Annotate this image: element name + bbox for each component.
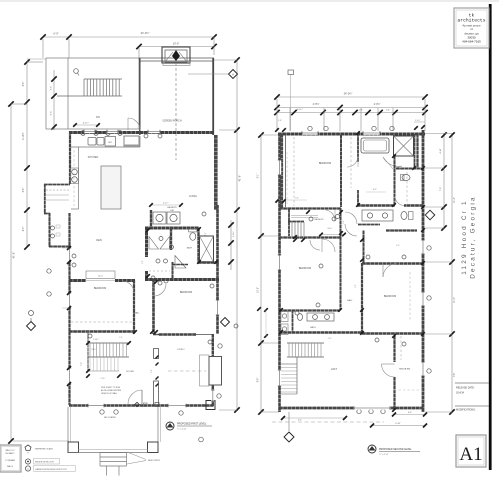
wall symbols small — [135, 402, 139, 406]
bath entry door arc — [395, 204, 404, 208]
stair upper run treads — [89, 343, 91, 357]
window tags on top wall — [81, 131, 86, 136]
screen porch centerline dashed — [175, 63, 177, 160]
pantry bottom wall — [44, 213, 50, 215]
closet dashed second floor — [350, 137, 352, 188]
svg-text:BEDROOM: BEDROOM — [384, 295, 396, 298]
second floor right wall — [422, 130, 425, 412]
svg-text:WALLS TO: WALLS TO — [6, 449, 16, 452]
left side tag circle — [29, 311, 34, 316]
closet wall above bedroom5 — [363, 231, 365, 264]
svg-text:9'-1": 9'-1" — [258, 174, 260, 179]
new steps label — [127, 452, 146, 460]
left dim extension stubs — [11, 103, 27, 105]
svg-text:TEMPERED GLASS: TEMPERED GLASS — [35, 448, 54, 451]
svg-text:5'-0": 5'-0" — [142, 260, 144, 264]
svg-text:7'-6": 7'-6" — [454, 373, 456, 378]
bath dashed partition — [406, 172, 408, 204]
window first floor left wall a — [68, 248, 71, 262]
second level title symbol — [368, 445, 376, 453]
svg-text:RELEASE DATE:: RELEASE DATE: — [456, 387, 475, 390]
mud closet left wall — [49, 213, 51, 247]
svg-text:DEN: DEN — [96, 238, 102, 242]
svg-text:4'-10": 4'-10" — [440, 148, 442, 154]
svg-text:MEDIA RM.: MEDIA RM. — [399, 368, 411, 371]
svg-text:2'-8": 2'-8" — [386, 110, 390, 112]
relocated tags — [100, 410, 104, 414]
house right wall — [216, 205, 219, 334]
bath butterfly door left — [149, 237, 159, 250]
window first floor left wall c — [68, 368, 71, 384]
fireplace hearth — [163, 62, 190, 66]
master shower — [394, 136, 414, 156]
bottom diamond marker — [288, 412, 290, 431]
window first floor top wall a — [84, 130, 95, 133]
screen porch right wall — [212, 58, 214, 135]
small dim left end wall — [275, 128, 279, 132]
svg-text:DN: DN — [96, 115, 100, 119]
house bottom wall — [69, 404, 214, 407]
window second floor right wall a — [421, 240, 424, 254]
legend wall-type box — [0, 445, 21, 472]
bath pocket door triangle — [175, 256, 186, 269]
kitchen ref box — [105, 137, 116, 147]
stair lower run treads — [89, 357, 91, 371]
laundry left wall — [150, 210, 152, 228]
bedroom1 top wall — [69, 279, 135, 282]
release date rule — [455, 382, 489, 384]
right plan right dim outer — [451, 133, 453, 412]
bedroom4 top wall — [279, 236, 341, 238]
house left wall mid — [68, 213, 70, 282]
front steps — [100, 452, 127, 454]
bath butterfly door right — [160, 237, 170, 250]
house top wall with windows — [69, 131, 214, 134]
study fireplace — [200, 355, 210, 386]
bottom wall corner post — [206, 401, 215, 410]
svg-text:BEDROOM: BEDROOM — [94, 287, 106, 290]
bedroom2 tag — [164, 279, 168, 283]
svg-text:HALL: HALL — [134, 312, 140, 315]
extra ticks second floor hall — [306, 210, 310, 214]
bath left wall — [145, 227, 148, 257]
svg-text:34'-0½": 34'-0½" — [344, 92, 353, 96]
deck inner rail line — [67, 58, 69, 129]
svg-text:2'-8": 2'-8" — [151, 369, 153, 373]
section diamond mid — [221, 318, 230, 327]
bedroom4 door arc — [322, 239, 335, 252]
svg-text:LAUNDRY: LAUNDRY — [314, 218, 324, 221]
svg-text:2'-6": 2'-6" — [295, 198, 299, 200]
pantry bump-out top wall — [44, 184, 70, 186]
svg-text:6'-0": 6'-0" — [53, 32, 58, 36]
svg-text:LAUNDRY: LAUNDRY — [167, 206, 178, 209]
screen porch left wall — [139, 58, 141, 135]
modifications rule — [455, 405, 489, 407]
svg-text:WALLS: WALLS — [7, 465, 14, 468]
wd closet wall — [292, 310, 294, 332]
extra ticks first floor stairs — [86, 341, 90, 345]
second floor bottom wall — [279, 407, 423, 410]
svg-text:7'-0": 7'-0" — [81, 362, 83, 366]
svg-text:1'-6": 1'-6" — [119, 337, 123, 339]
svg-text:8'-6": 8'-6" — [258, 378, 260, 383]
bedroom3 small dim — [286, 199, 307, 201]
survey symbol — [288, 70, 294, 75]
svg-text:3'-0": 3'-0" — [328, 338, 332, 340]
bedroom5 closet line — [409, 272, 411, 320]
bedroom2 door arc — [154, 284, 166, 296]
svg-text:4'-0": 4'-0" — [205, 232, 207, 236]
window second floor right wall b — [421, 292, 424, 306]
bath shower — [200, 236, 214, 262]
hall top wall — [279, 207, 341, 209]
window first floor bottom wall a — [88, 404, 104, 407]
study opening jambs — [154, 349, 159, 359]
front porch sides — [67, 407, 69, 442]
house left wall upper — [69, 131, 71, 184]
right plan left ext stubs — [261, 134, 279, 136]
bottom dim 6-10 — [372, 425, 425, 427]
kitchen island — [101, 166, 121, 209]
loft stairs upper treads — [288, 343, 290, 357]
kitchen counter along left wall — [78, 147, 80, 209]
pantry bump-out left wall — [44, 184, 46, 214]
front porch bottom edge — [68, 452, 148, 454]
svg-text:A1: A1 — [459, 444, 482, 465]
bedroom4 top wall ticks — [293, 238, 297, 242]
stair side wall — [87, 331, 89, 371]
svg-text:1129 Hood Cr 1: 1129 Hood Cr 1 — [461, 199, 468, 274]
deck outline — [46, 58, 139, 129]
hall door arcs — [345, 212, 357, 224]
deck tag circle — [74, 69, 79, 74]
deck stair treads hatch — [83, 79, 85, 96]
right dim extension stubs — [214, 59, 237, 61]
kitchen range — [124, 136, 139, 147]
dim line second level (10'-0) — [139, 46, 214, 48]
second floor left wall — [278, 133, 281, 412]
svg-text:MODIFICATIONS:: MODIFICATIONS: — [456, 409, 476, 412]
bath shower bottom wall — [198, 261, 219, 264]
svg-text:10'-0": 10'-0" — [258, 287, 260, 293]
window first floor top wall c — [148, 130, 160, 133]
bedroom2 bottom wall — [159, 333, 196, 336]
window second floor bottom wall — [354, 406, 390, 409]
deck inner dim — [53, 70, 55, 130]
svg-text:BEDROOM: BEDROOM — [180, 291, 192, 294]
svg-text:41'-6": 41'-6" — [12, 252, 16, 259]
svg-text:FOYER: FOYER — [126, 371, 134, 373]
svg-text:4'-2": 4'-2" — [373, 189, 377, 191]
bottom dim dashed — [272, 421, 384, 423]
svg-text:4'-6½": 4'-6½" — [313, 102, 320, 106]
svg-text:404-664-7165: 404-664-7165 — [462, 40, 481, 44]
washer dryer circles — [156, 214, 163, 221]
bath toilet — [190, 233, 196, 241]
legend tempered glass — [25, 445, 31, 451]
tag circle below — [199, 437, 204, 442]
architect box — [454, 8, 489, 48]
second floor left wall inner line — [285, 135, 287, 207]
svg-text:co: co — [27, 469, 29, 471]
svg-text:4'-0": 4'-0" — [396, 245, 400, 247]
vanity sinks — [367, 213, 372, 218]
window second floor top wall b — [363, 131, 380, 134]
svg-text:3'-6": 3'-6" — [51, 86, 53, 91]
bath lower wall — [357, 204, 423, 206]
right plan top dim overall — [277, 96, 425, 98]
left wall window tags lower — [47, 269, 51, 273]
bedroom5 top wall — [362, 262, 423, 264]
svg-text:3/14/14: 3/14/14 — [456, 392, 465, 395]
section marker diamond — [229, 70, 238, 79]
svg-text:RUN SOFFIT TO RUN: RUN SOFFIT TO RUN — [101, 387, 121, 389]
svg-text:BEDROOM: BEDROOM — [299, 267, 311, 270]
pantry shelf lines — [46, 189, 69, 191]
bedroom3 right wall — [340, 135, 342, 207]
svg-text:6'-6": 6'-6" — [408, 412, 412, 414]
bath2 top wall — [279, 309, 340, 311]
screen porch top wall — [139, 57, 214, 59]
svg-text:TP: TP — [27, 453, 29, 455]
right plan top dim inner — [277, 112, 425, 114]
svg-text:LOFT: LOFT — [331, 368, 338, 371]
fireplace inner box — [165, 50, 187, 62]
media dashed lines — [400, 336, 402, 360]
legend smoke detector — [25, 459, 30, 464]
svg-text:10'-0": 10'-0" — [173, 42, 180, 46]
bedroom5 door arc — [383, 263, 397, 277]
extra ticks first floor bath cluster — [146, 228, 150, 232]
svg-text:SCREEN PORCH: SCREEN PORCH — [162, 120, 182, 123]
svg-text:RELOCATED: RELOCATED — [104, 416, 117, 419]
vanity counter — [362, 210, 393, 221]
bedroom1 door arc — [122, 281, 134, 292]
window second floor right wall c — [421, 362, 424, 376]
den cased opening — [86, 278, 115, 284]
svg-text:TO REMAIN: TO REMAIN — [5, 459, 16, 462]
stair dim second floor — [319, 234, 346, 236]
dim extension lines top — [42, 39, 44, 58]
svg-text:10'-0": 10'-0" — [98, 276, 103, 278]
window first floor bottom wall b — [168, 404, 186, 407]
stair bottom ticks — [86, 374, 90, 378]
window first floor right wall b — [211, 390, 214, 401]
second floor top wall — [278, 133, 425, 136]
section marker line — [188, 73, 228, 75]
study opening ticks — [156, 356, 159, 359]
svg-text:2'-6": 2'-6" — [343, 220, 345, 224]
wc section diamond — [425, 210, 435, 220]
svg-text:SMOKE DETECTOR: SMOKE DETECTOR — [35, 462, 54, 464]
window first floor left wall b — [68, 293, 71, 308]
bath bottom wall / bedroom2 top wall — [145, 278, 219, 281]
shower door fan — [383, 157, 402, 166]
wc divider wall — [396, 168, 423, 170]
bottom wall window tags — [357, 409, 361, 413]
bedroom5 left wall — [361, 263, 363, 334]
porch door arc — [128, 118, 140, 130]
svg-text:2'-6": 2'-6" — [158, 224, 162, 226]
mud closet tags — [51, 226, 55, 230]
extra ticks second floor bath — [356, 131, 360, 135]
dim line top of first-floor plan (6'-0 / 34'-0.5) — [43, 36, 214, 38]
fireplace firebox — [172, 50, 180, 61]
bottom dims right plan — [394, 414, 425, 416]
laundry top dim — [150, 204, 181, 206]
svg-text:LENGTH OF WALL: LENGTH OF WALL — [101, 392, 117, 395]
hall right wall upper — [340, 208, 342, 310]
small dim above bath — [414, 121, 425, 123]
svg-text:Decatur, Georgia: Decatur, Georgia — [470, 195, 477, 279]
media rm door arc — [382, 364, 395, 377]
loft stairs lower — [281, 363, 297, 365]
linen walls — [358, 224, 380, 226]
deck stair rails — [57, 95, 122, 97]
svg-text:PROPOSED SECOND LEVEL: PROPOSED SECOND LEVEL — [379, 448, 412, 451]
study right wall tags — [218, 344, 222, 348]
svg-text:NEW STEPS: NEW STEPS — [148, 460, 160, 462]
bath top wall — [145, 227, 199, 230]
extension line left of deck — [27, 58, 46, 60]
bedroom1 right wall — [133, 280, 135, 334]
svg-text:41'-6": 41'-6" — [238, 175, 242, 182]
svg-text:BE MAINT.: BE MAINT. — [6, 452, 15, 455]
svg-text:¼" = 1'-0": ¼" = 1'-0" — [177, 428, 187, 431]
right plan left dim — [260, 135, 262, 412]
bedroom1 bottom wall — [69, 330, 134, 333]
first level title symbol — [166, 422, 174, 430]
kitchen counter along top wall — [71, 146, 140, 148]
house left wall lower — [68, 282, 70, 405]
svg-text:4'-0": 4'-0" — [23, 227, 25, 232]
wc toilet — [402, 175, 410, 181]
window first floor top wall b — [107, 130, 118, 133]
study dashed line — [168, 370, 206, 372]
wd units — [281, 312, 288, 322]
washer dryer boxes — [153, 212, 166, 224]
right plan top dim mid — [277, 107, 425, 109]
window second floor top wall a — [302, 131, 318, 134]
extra ticks first floor left openings — [67, 246, 71, 250]
mud closet bottom wall — [49, 246, 70, 248]
svg-text:HALL: HALL — [347, 299, 353, 302]
svg-text:6'-6": 6'-6" — [51, 111, 53, 116]
bath left wall — [357, 133, 359, 162]
svg-text:6'-6": 6'-6" — [23, 82, 25, 87]
bath2 bottom wall — [279, 331, 362, 333]
title block thick bar — [489, 4, 492, 470]
loft stairs upper rails — [287, 342, 324, 344]
window second floor left wall a — [278, 160, 281, 175]
tag circles second floor interior — [309, 217, 313, 221]
master tub — [361, 138, 389, 153]
top wall window dim — [73, 124, 100, 126]
bedroom1 closet dashed — [71, 321, 133, 323]
closet door arc bath — [347, 156, 358, 167]
window second floor left wall b — [278, 255, 281, 270]
bath lower wall 2 — [386, 229, 417, 231]
svg-text:KITCHEN: KITCHEN — [88, 156, 99, 159]
bath wall mid vertical — [197, 228, 199, 263]
svg-text:BATH: BATH — [310, 326, 316, 329]
bath inner closet wall — [172, 262, 174, 279]
bedroom5 bottom wall — [362, 332, 423, 334]
svg-text:BATH: BATH — [187, 247, 193, 250]
top border faint line — [0, 0, 499, 2]
left side diamond — [27, 322, 36, 331]
fireplace splay lines — [165, 52, 173, 62]
bath2 toilet — [298, 314, 303, 321]
svg-text:34'-0½": 34'-0½" — [141, 31, 150, 35]
tag circles second floor right side — [427, 246, 431, 250]
closet dashed rod — [149, 270, 170, 272]
stair upper run rails — [88, 342, 129, 344]
bath tags — [159, 237, 163, 241]
svg-text:ALONG STAIR ENTIRE: ALONG STAIR ENTIRE — [101, 389, 122, 392]
bath right wall — [414, 134, 416, 168]
right dim 41'-6 of first floor — [236, 60, 238, 410]
fireplace outer box — [162, 47, 190, 63]
svg-text:¼" = 1'-0": ¼" = 1'-0" — [379, 453, 389, 456]
stair shelf lines — [291, 215, 318, 217]
svg-text:CARBON MONOXIDE DETECTOR: CARBON MONOXIDE DETECTOR — [35, 468, 67, 471]
bedroom3 closet dashed — [293, 137, 295, 206]
bath2 vanity — [307, 313, 334, 321]
svg-text:4'-0½": 4'-0½" — [374, 102, 381, 106]
kitchen wall ovens — [72, 169, 78, 175]
bath mid wall vertical — [394, 156, 396, 205]
svg-text:PROPOSED FIRST LEVEL: PROPOSED FIRST LEVEL — [177, 423, 207, 426]
wc toilet — [401, 212, 407, 220]
window first floor right wall a — [216, 300, 219, 315]
stairwell left wall — [288, 209, 290, 236]
right plan right dim inner — [443, 133, 445, 228]
kitchen sink — [88, 138, 96, 146]
svg-text:LIVING: LIVING — [189, 195, 197, 198]
bath inner wall vertical — [170, 228, 172, 250]
right plan right ext stubs — [425, 133, 452, 135]
front porch posts bottom — [68, 442, 79, 453]
overall left dim 41'-6 — [10, 104, 12, 441]
svg-text:7'-6": 7'-6" — [440, 187, 442, 192]
living room right wall — [214, 135, 218, 210]
svg-text:1'-6": 1'-6" — [278, 120, 282, 122]
legend co detector — [25, 466, 30, 471]
svg-text:5'-0": 5'-0" — [355, 284, 357, 288]
right plan extension lines top — [276, 99, 278, 131]
svg-text:6'-6": 6'-6" — [23, 188, 25, 193]
svg-text:11'-0": 11'-0" — [454, 197, 456, 203]
right dim inner ticks — [230, 220, 232, 270]
sheet number box — [456, 435, 486, 467]
stairwell treads — [291, 222, 293, 236]
window second floor left wall c — [278, 370, 281, 386]
svg-text:6'-10": 6'-10" — [395, 423, 401, 425]
front door arc — [128, 390, 142, 404]
svg-text:rd: rd — [470, 27, 473, 31]
stair half wall — [288, 221, 304, 223]
left dim line segments — [26, 62, 28, 247]
tag circles first floor misc — [144, 134, 148, 138]
svg-text:11'-0": 11'-0" — [454, 297, 456, 303]
laundry door arc — [326, 210, 335, 221]
second floor top wall window tags — [308, 126, 312, 130]
svg-text:BEDROOM: BEDROOM — [319, 162, 331, 165]
svg-text:STUDY: STUDY — [177, 349, 185, 351]
stair lower run rails — [88, 356, 119, 358]
